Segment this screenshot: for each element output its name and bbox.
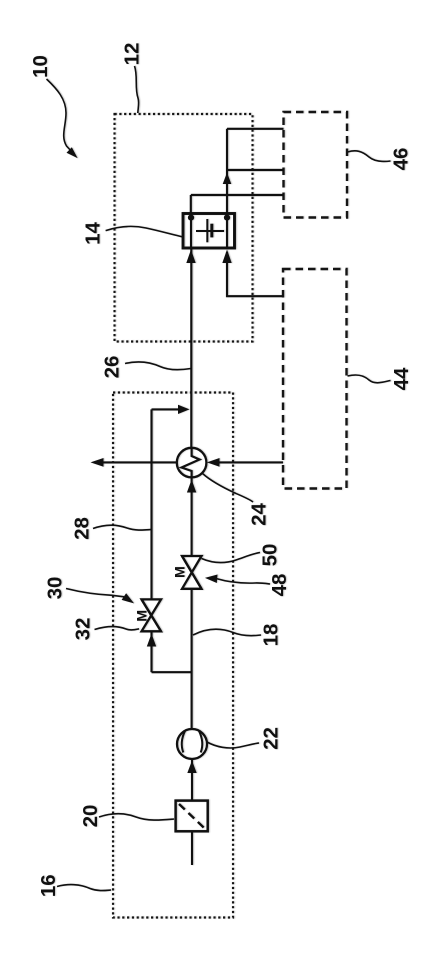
svg-text:26: 26 (101, 356, 124, 379)
label 18 (260, 624, 283, 647)
leader for 14 (106, 226, 183, 237)
wire vertical from box14 right terminal up to L1 (226, 129, 228, 214)
svg-text:M: M (172, 566, 188, 578)
svg-text:44: 44 (390, 367, 413, 390)
svg-text:12: 12 (121, 43, 144, 66)
label 10 (29, 55, 52, 78)
bypass bottom horizontal to main line (152, 671, 192, 673)
leader for 32 (95, 627, 140, 630)
leader for 12 (135, 66, 139, 113)
battery symbol inside box 14 (196, 219, 224, 242)
fuel cell box 14 (183, 214, 235, 249)
label 28 (71, 517, 94, 540)
svg-text:20: 20 (79, 805, 102, 828)
leader for 44 (348, 375, 391, 383)
filter 20 box (176, 801, 208, 832)
label 24 (248, 503, 271, 526)
valve 32 motor mark M (134, 610, 150, 622)
solenoid valve 32 (bowtie) on bypass (142, 599, 162, 631)
label 14 (82, 222, 105, 245)
label 50 (259, 544, 282, 567)
dashed box 46 (284, 112, 348, 218)
main line between pump and filter (191, 759, 193, 801)
leader arrow for 30 (66, 589, 124, 597)
leader for 24 (203, 474, 254, 503)
flow arrow up on vertical wire (223, 173, 232, 185)
bypass line 28: top horizontal with arrow into main line (152, 408, 181, 410)
label 44 (390, 367, 413, 390)
svg-text:46: 46 (390, 148, 413, 171)
internal pass-through wires of box 14 (190, 214, 192, 249)
leader for 26 (125, 362, 191, 370)
flow arrow up into pump bottom (187, 761, 196, 774)
label 20 (79, 805, 102, 828)
pump 22 circle (177, 729, 207, 759)
wire L2 to box 46 (227, 169, 284, 171)
svg-text:50: 50 (259, 544, 282, 567)
svg-text:10: 10 (29, 55, 52, 78)
wire L3 to box 46 (191, 194, 284, 196)
flow arrow up below valve 32 (147, 634, 156, 647)
label 48 (268, 574, 291, 597)
flow arrow up into exchanger bottom (187, 480, 196, 493)
label 22 (260, 727, 283, 750)
solenoid valve 48 (bowtie) (182, 556, 202, 589)
main line between valve 48 and pump (191, 589, 193, 729)
label 32 (72, 618, 95, 641)
svg-text:48: 48 (268, 574, 291, 597)
label 16 (37, 874, 60, 897)
svg-text:18: 18 (260, 624, 283, 647)
main line between exchanger and valve 48 (191, 477, 193, 556)
coolant line left with exit arrow (101, 461, 177, 463)
leader for 20 (99, 814, 174, 820)
svg-text:22: 22 (260, 727, 283, 750)
bypass line 28: vertical (150, 409, 152, 599)
bypass lower vertical (150, 631, 152, 672)
pump 22 vanes (182, 731, 185, 753)
heat exchanger zigzag (182, 448, 200, 477)
label 12 (121, 43, 144, 66)
leader arrow for 10 (47, 79, 78, 158)
svg-text:32: 32 (72, 618, 95, 641)
label 26 (101, 356, 124, 379)
dotted box 16 (113, 393, 233, 918)
heat exchanger U24 circle (177, 448, 207, 478)
wire L1 to box 46 (227, 128, 284, 130)
leader for 28 (93, 525, 151, 530)
inlet arrow into box 14 bottom left (186, 250, 195, 264)
leader for 16 (57, 885, 111, 891)
svg-text:30: 30 (44, 577, 67, 600)
valve 48 motor mark M (172, 566, 188, 578)
leader for 22 (207, 742, 259, 748)
terminal node right (224, 215, 230, 221)
svg-text:16: 16 (37, 874, 60, 897)
terminal node left (188, 215, 194, 221)
main process line 26 (vertical) upper segment (190, 248, 192, 448)
leader arrow for 48 (216, 579, 270, 585)
wire from box14 bottom-right down and right into box 44 (227, 252, 283, 296)
leader for 50 (202, 553, 261, 563)
label 30 (44, 577, 67, 600)
dotted box 12 (115, 114, 253, 342)
label 46 (390, 148, 413, 171)
inlet arrow into box 14 bottom right (222, 250, 231, 264)
leader for 46 (348, 151, 391, 162)
leader for 18 (193, 629, 261, 635)
dashed box 44 (283, 269, 347, 489)
svg-text:14: 14 (82, 222, 105, 245)
coolant line right from box 44 with arrow into exchanger (216, 461, 283, 463)
svg-text:M: M (134, 610, 150, 622)
svg-text:24: 24 (248, 503, 271, 526)
wire vertical from box14 left terminal up to L3 (190, 195, 192, 214)
svg-text:28: 28 (71, 517, 94, 540)
main line inlet below filter (191, 831, 193, 865)
filter 20 dashed diagonal (179, 804, 205, 828)
